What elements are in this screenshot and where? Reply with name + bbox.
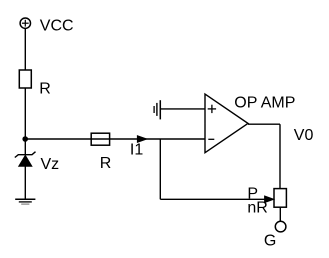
- svg-text:I1: I1: [130, 141, 143, 158]
- svg-text:OP AMP: OP AMP: [234, 95, 295, 112]
- svg-text:VCC: VCC: [40, 17, 74, 34]
- svg-text:Vz: Vz: [41, 156, 60, 173]
- svg-text:V0: V0: [294, 127, 314, 144]
- svg-text:R: R: [100, 155, 112, 172]
- svg-text:G: G: [264, 232, 276, 249]
- svg-text:nR: nR: [247, 199, 267, 216]
- svg-text:R: R: [39, 81, 51, 98]
